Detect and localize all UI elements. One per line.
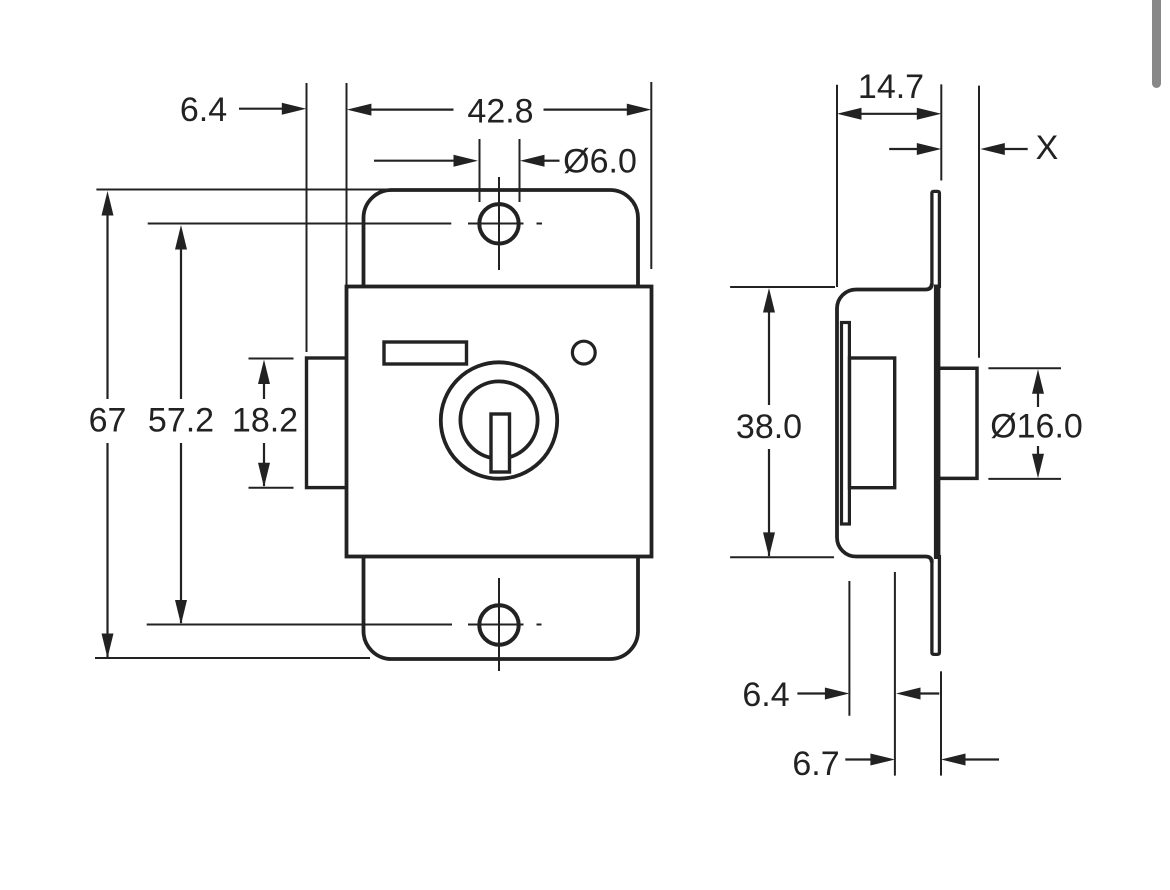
dim 14.7: extension lines: [837, 84, 941, 287]
dim 6.4 bottom: arrows and label: [742, 676, 939, 714]
svg-text:6.7: 6.7: [792, 745, 839, 783]
dim Ø6.0: extension lines: [480, 139, 520, 202]
dim 38.0: extension lines: [730, 287, 835, 557]
dim 6.4 bottom: extension lines: [849, 572, 895, 776]
side cylinder boss: [937, 368, 977, 478]
svg-text:18.2: 18.2: [232, 402, 298, 440]
rivet circle: [572, 341, 595, 364]
dim 57.2: extension / centre lines through holes: [147, 224, 542, 625]
lock body (case front): [347, 287, 652, 557]
scrollbar thumb: [1152, 0, 1161, 88]
svg-text:X: X: [1036, 129, 1059, 167]
svg-text:67: 67: [89, 402, 127, 440]
side flange plate: upper tab: [932, 191, 940, 288]
svg-text:57.2: 57.2: [148, 402, 214, 440]
dim 6.4 top: leader and arrow: [180, 91, 306, 129]
side cam box (latch depth): [850, 358, 895, 488]
dim X: arrows, extension line and label: [889, 86, 1058, 358]
dim 6.7: extension line at plate outer face: [940, 671, 942, 775]
dim Ø16.0: extension lines: [988, 368, 1061, 479]
dim 6.4 top: extension line at body left edge: [346, 83, 348, 287]
flange plate (rounded mounting plate): [364, 190, 639, 659]
dim 6.7: arrows and label: [792, 745, 999, 783]
svg-text:42.8: 42.8: [467, 93, 533, 131]
dim 67: dimension line with arrows and label: [89, 191, 127, 658]
dim 38.0: dimension line with arrows and label: [736, 288, 802, 557]
dim 42.8: right extension line: [650, 82, 652, 269]
svg-text:6.4: 6.4: [180, 91, 227, 129]
dim 14.7: dimension line with outward arrows and label: [837, 68, 941, 120]
dim 42.8: dimension line with outward arrows: [347, 93, 651, 131]
dim 57.2: dimension line with arrows and label: [148, 225, 214, 625]
dim 18.2: dimension line with arrows and label: [232, 360, 298, 488]
dim 67: extension lines: [95, 190, 392, 659]
svg-text:14.7: 14.7: [858, 68, 924, 106]
bottom mounting hole: [479, 578, 518, 671]
side inner strip (back plate): [842, 323, 850, 525]
dim Ø16.0: dimension line with arrows and label: [990, 369, 1083, 478]
top mounting hole: [479, 177, 518, 270]
dim Ø6.0: arrows and label: [374, 143, 637, 181]
key cylinder outer circle: [441, 362, 557, 478]
svg-text:Ø6.0: Ø6.0: [563, 143, 637, 181]
dim 18.2: extension lines: [249, 359, 294, 488]
side body outline with rounded left corners: [837, 284, 932, 563]
side flange plate: lower tab: [932, 555, 940, 654]
latch bolt (left protrusion): [307, 358, 349, 488]
dim 6.4 top: extension line at latch left edge: [306, 83, 308, 352]
svg-text:Ø16.0: Ø16.0: [990, 408, 1083, 446]
side flange plate: merged edge along body: [934, 285, 941, 560]
svg-text:38.0: 38.0: [736, 408, 802, 446]
svg-text:6.4: 6.4: [742, 676, 789, 714]
key slot: [491, 414, 510, 472]
label window: [384, 342, 467, 364]
key cylinder inner circle: [460, 381, 537, 458]
